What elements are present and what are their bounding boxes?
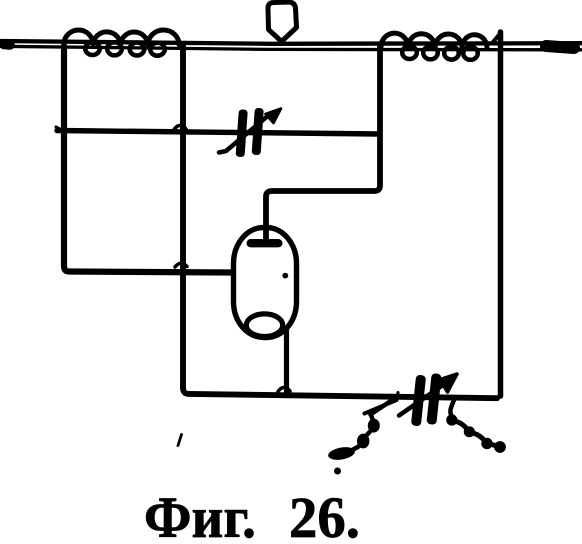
svg-text:26.: 26. <box>289 485 360 544</box>
svg-text:Фиг.: Фиг. <box>144 485 256 544</box>
